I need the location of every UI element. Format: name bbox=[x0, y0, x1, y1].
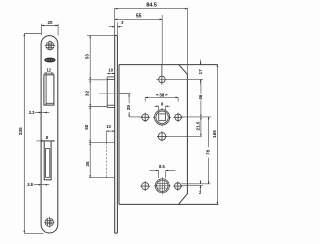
deadbolt thrown (side view, dashed) bbox=[105, 131, 107, 143]
svg-text:29: 29 bbox=[126, 105, 131, 111]
latch bolt (front view) bbox=[44, 75, 54, 105]
WC spindle hub (bottom, hatched) bbox=[155, 179, 169, 193]
spindle centreline bbox=[129, 116, 142, 118]
svg-text:3.8: 3.8 bbox=[27, 182, 33, 187]
latch centerline bbox=[99, 92, 131, 94]
latch bolt (side view) bbox=[107, 77, 115, 108]
dimension 21.5 (spindle to hub hole) bbox=[200, 117, 202, 136]
lock case outline (side view) bbox=[119, 65, 218, 205]
svg-text:46: 46 bbox=[198, 94, 203, 100]
side fixing holes left/right of spindle bbox=[141, 113, 183, 122]
release hole near case top bbox=[159, 65, 166, 85]
faceplate outline (front view) bbox=[41, 36, 58, 233]
side view: faceplate strip (edge-on) bbox=[115, 35, 118, 233]
extension lines from left column bbox=[87, 34, 115, 36]
svg-text:165: 165 bbox=[212, 130, 217, 138]
svg-text:55: 55 bbox=[136, 13, 142, 19]
svg-text:84.5: 84.5 bbox=[146, 3, 157, 9]
svg-text:21.5: 21.5 bbox=[196, 121, 201, 130]
dimension 29 (latch to spindle centre) bbox=[119, 92, 131, 94]
svg-text:78: 78 bbox=[206, 149, 211, 155]
svg-text:53: 53 bbox=[85, 54, 90, 60]
svg-text:3.3: 3.3 bbox=[29, 110, 35, 115]
svg-text:35: 35 bbox=[85, 161, 90, 167]
svg-text:10: 10 bbox=[106, 124, 111, 129]
dimension 165 (case height) bbox=[216, 65, 218, 205]
svg-text:10: 10 bbox=[109, 67, 114, 72]
svg-text:235: 235 bbox=[18, 127, 23, 135]
bottom screw bbox=[44, 217, 55, 228]
left dimension column (53 / 32 / 50 / 35) bbox=[89, 35, 91, 177]
dimension 46 (release hole to spindle) bbox=[200, 79, 202, 93]
svg-text:38: 38 bbox=[159, 92, 165, 97]
bottom fixing holes bbox=[140, 181, 182, 191]
spindle follower (square hub) bbox=[153, 108, 171, 126]
svg-text:12: 12 bbox=[47, 68, 52, 73]
svg-text:32: 32 bbox=[85, 91, 90, 97]
top screw bbox=[45, 41, 55, 51]
deadbolt slot (front view) bbox=[44, 141, 51, 180]
svg-text:50: 50 bbox=[84, 124, 89, 130]
brand oval label bbox=[44, 58, 55, 63]
cylinder row extension lines bbox=[181, 183, 210, 185]
dimension 2 (hub offset) bbox=[200, 180, 202, 184]
svg-text:8.5: 8.5 bbox=[159, 164, 165, 169]
dimension 78 (spindle to WC hub) bbox=[208, 117, 210, 147]
hub hole below spindle bbox=[157, 131, 167, 141]
svg-text:17: 17 bbox=[198, 69, 203, 75]
svg-text:20: 20 bbox=[47, 20, 53, 25]
